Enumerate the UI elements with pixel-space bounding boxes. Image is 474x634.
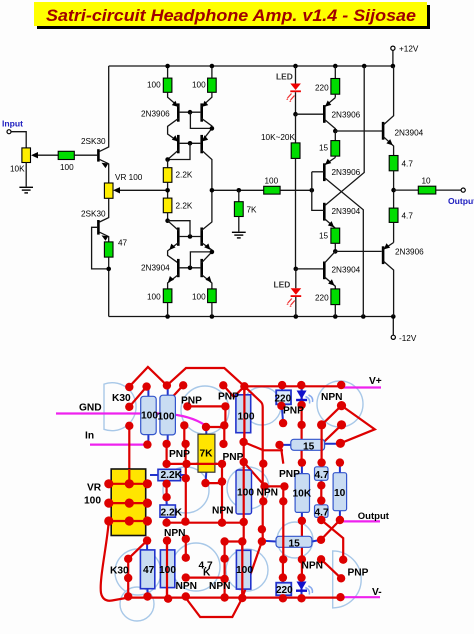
svg-text:100: 100: [141, 411, 158, 422]
PCB labels: [79, 376, 390, 598]
trace segment 49: [166, 541, 168, 599]
svg-text:100: 100: [236, 565, 253, 576]
wire between 2.2Ks: [167, 160, 169, 199]
svg-text:220: 220: [315, 294, 329, 303]
trace segment 4: [128, 426, 130, 484]
svg-text:NPN: NPN: [257, 488, 279, 499]
pad 87: [337, 574, 345, 582]
resistor 7K: [234, 190, 257, 231]
pad 8: [297, 381, 305, 389]
pad 32: [182, 474, 190, 482]
pad 72: [220, 537, 228, 545]
svg-text:10K: 10K: [293, 489, 312, 500]
trace segment 3: [129, 387, 146, 407]
trace segment 5: [187, 405, 225, 407]
pad 90: [238, 594, 246, 602]
transistor Qd 2N3904: [324, 251, 360, 289]
pad 57: [125, 516, 134, 525]
body 2.2K b: [160, 497, 175, 523]
svg-text:2.2K: 2.2K: [161, 508, 183, 519]
svg-text:10: 10: [422, 177, 432, 186]
wire left column top: [108, 66, 110, 147]
diode D2 (PCB): [296, 578, 312, 599]
trace segment 8: [172, 385, 184, 398]
body 15 bottom: [263, 536, 321, 547]
pad 67: [317, 536, 325, 544]
pad 15: [337, 401, 346, 410]
resistor 10K~20K: [261, 114, 300, 269]
pad 7: [278, 381, 286, 389]
transistor Q2 2SK30: [81, 210, 109, 269]
node +12V terminal: [391, 46, 395, 50]
pad 42: [280, 482, 288, 490]
body 220 bottom: [276, 578, 291, 599]
svg-text:NPN: NPN: [321, 392, 343, 403]
wire 2.2K to lower quad: [167, 213, 169, 221]
trace segment 52: [109, 484, 148, 521]
pad 22: [337, 420, 346, 429]
body 4.7 a: [315, 463, 329, 486]
body 2.2K a: [150, 469, 186, 480]
transistor Qout1 2N3904: [383, 66, 424, 156]
trace segment 43: [185, 539, 187, 558]
pad 69: [163, 536, 171, 544]
svg-text:100: 100: [192, 81, 206, 90]
pad 84: [279, 555, 287, 563]
pad 47: [298, 458, 306, 466]
trace segment 2: [167, 368, 342, 386]
pad 13: [277, 402, 285, 410]
pad 24: [162, 440, 170, 448]
pad 39: [259, 460, 267, 468]
resistor 100 (middle): [264, 177, 280, 195]
wire 100 to JFET1 gate: [74, 154, 97, 156]
node LED2 junction: [294, 267, 299, 272]
pad 66: [258, 525, 266, 533]
svg-text:PNP: PNP: [283, 406, 304, 417]
wire pot to ground: [25, 163, 27, 187]
wire VR to Q2 drain: [108, 198, 110, 216]
resistor 220 upper: [315, 66, 340, 98]
pad 63: [336, 516, 344, 524]
svg-text:NPN: NPN: [164, 528, 186, 539]
transistor outline NPN mid right: [277, 522, 313, 558]
trace segment 1: [129, 367, 167, 387]
pad 80: [220, 555, 228, 563]
magenta wire V-: [341, 596, 381, 598]
trace segment 19: [166, 484, 168, 497]
pad 53: [104, 499, 113, 508]
trace segment 50: [301, 559, 303, 577]
resistor 100 (input): [58, 151, 74, 172]
trace segment 42: [127, 559, 129, 597]
svg-text:GND: GND: [79, 403, 102, 414]
pad 94: [297, 594, 305, 602]
body 47: [140, 541, 154, 597]
trace segment 29: [265, 485, 284, 487]
pad 86: [317, 555, 325, 563]
wire red overlays on components: [109, 439, 322, 549]
wire LED1 node to Qa base: [296, 113, 324, 115]
pad 73: [258, 537, 266, 545]
trace segment 22: [340, 406, 374, 444]
svg-text:V-: V-: [372, 587, 382, 598]
wire base link bottom pair: [180, 142, 201, 144]
pad 29: [162, 480, 170, 488]
pad 55: [143, 499, 152, 508]
pad 52: [143, 479, 152, 488]
trace segment 44: [186, 576, 225, 578]
pad 78: [182, 573, 190, 581]
wire tie right node to top bases: [190, 112, 212, 128]
trace segment 21: [322, 406, 342, 425]
trace segment 7: [206, 426, 224, 428]
pad 12: [221, 402, 229, 410]
wire base link T5 T6: [180, 236, 201, 238]
svg-text:4.7: 4.7: [315, 508, 329, 519]
svg-text:4.7: 4.7: [402, 212, 414, 221]
svg-text:K30: K30: [112, 393, 131, 404]
pad 54: [125, 499, 134, 508]
svg-text:2N3906: 2N3906: [395, 248, 424, 257]
resistor 2.2K upper: [163, 168, 193, 183]
pad 35: [218, 477, 226, 485]
trace segment 25: [301, 385, 303, 463]
trace segment 13: [223, 425, 225, 444]
trace segment 32: [243, 386, 245, 442]
wire 100s to bottom rail: [168, 303, 212, 317]
svg-text:VR 100: VR 100: [115, 173, 143, 182]
svg-text:100: 100: [84, 496, 101, 507]
svg-text:7K: 7K: [247, 206, 258, 215]
pad 16: [125, 422, 133, 430]
trace segment 16: [221, 464, 223, 523]
pad 77: [182, 554, 190, 562]
pad 20: [297, 421, 305, 429]
trace segment 27: [244, 386, 262, 541]
pad 48: [317, 458, 325, 466]
wire Q1 source to VR: [108, 164, 110, 184]
trace segment 30: [282, 486, 284, 559]
wire -12V drop: [392, 317, 394, 336]
pad 62: [317, 516, 325, 524]
svg-text:100: 100: [238, 412, 255, 423]
svg-text:10K: 10K: [10, 165, 25, 174]
pad 49: [336, 458, 344, 466]
svg-text:220: 220: [276, 585, 293, 596]
body 100 v8: [160, 541, 174, 599]
svg-text:PNP: PNP: [279, 469, 300, 480]
transistor T6 2N3904: [201, 190, 212, 252]
transistor outline NPN bottom left: [172, 543, 220, 591]
svg-text:15: 15: [319, 144, 329, 153]
resistor 100 (top left): [147, 78, 172, 92]
svg-text:100: 100: [60, 163, 74, 172]
resistor 100 (top right): [192, 78, 216, 92]
trace segment 14: [167, 463, 222, 465]
svg-text:2N3904: 2N3904: [332, 207, 361, 216]
pad 11: [183, 402, 191, 410]
pad 6: [240, 382, 248, 390]
pad 34: [218, 460, 226, 468]
PCB pads: [104, 381, 347, 603]
pad 4: [179, 381, 187, 389]
resistor 4.7 upper: [389, 156, 413, 209]
PCB resistor bodies: [140, 385, 346, 599]
pad 60: [317, 496, 325, 504]
pad 71: [182, 535, 190, 543]
pad 56: [104, 516, 113, 525]
pad 85: [339, 556, 347, 564]
transistor T1 2N3906: [168, 92, 179, 142]
pad 43: [279, 497, 287, 505]
wire top rail: [109, 65, 394, 67]
svg-text:100: 100: [147, 293, 161, 302]
pad 83: [298, 555, 306, 563]
trace segment 51: [282, 559, 284, 598]
wire 47 to bottom rail: [108, 257, 110, 316]
wire +12V drop: [392, 51, 394, 67]
pad 26: [219, 440, 227, 448]
svg-text:10: 10: [334, 488, 346, 499]
trace segment 48: [242, 542, 262, 599]
svg-text:2N3904: 2N3904: [332, 266, 361, 275]
magenta wire GND: [56, 414, 205, 426]
svg-text:2.2K: 2.2K: [161, 470, 183, 481]
svg-text:4.7: 4.7: [402, 160, 414, 169]
pad 93: [279, 594, 287, 602]
node Qd collector: [333, 249, 338, 254]
transistor outline bottom corner: [120, 587, 154, 621]
svg-text:VR: VR: [87, 483, 102, 494]
node -12V terminal: [391, 335, 395, 339]
magenta wire Output: [342, 520, 380, 522]
pad 33: [181, 517, 189, 525]
LED upper: [276, 66, 301, 114]
transistor outline PNP top mid: [243, 387, 281, 425]
pad 2: [142, 382, 150, 390]
svg-text:NPN: NPN: [209, 581, 231, 592]
pad 76: [124, 592, 132, 600]
trace segment 35: [321, 520, 343, 560]
pad 23: [143, 440, 151, 448]
svg-text:Output: Output: [358, 511, 390, 522]
node input terminal: [7, 130, 11, 134]
svg-text:47: 47: [118, 239, 128, 248]
resistor 4.7 lower: [389, 208, 413, 242]
trace segment 41: [128, 541, 147, 559]
svg-text:NPN: NPN: [176, 581, 198, 592]
svg-text:K30: K30: [110, 566, 129, 577]
resistor 220 lower: [315, 289, 340, 317]
PCB traces: [101, 367, 375, 617]
trace segment 23: [322, 425, 341, 443]
title bar: [34, 2, 427, 26]
trace segment 26: [320, 485, 322, 500]
potentiometer 10K: [10, 148, 58, 174]
transistor Qa 2N3906: [324, 98, 360, 131]
transistor outline PNP bottom right: [333, 551, 362, 608]
diode D1 (PCB): [296, 387, 313, 404]
transistor outline PNP mid left: [163, 467, 209, 513]
svg-text:4.7: 4.7: [315, 470, 329, 481]
svg-text:LED: LED: [276, 72, 293, 82]
svg-text:2.2K: 2.2K: [176, 202, 193, 211]
pad 10: [125, 403, 133, 411]
wire 100 middle to driver node: [280, 189, 312, 191]
transistor outline K30 top: [104, 383, 136, 431]
transistor T8 2N3904: [201, 252, 212, 289]
svg-text:2SK30: 2SK30: [81, 210, 106, 219]
magenta wire In: [90, 444, 147, 446]
wire output junction to 10: [394, 189, 419, 191]
pad 95: [336, 593, 344, 601]
resistor 100 (bottom left): [147, 289, 172, 303]
svg-text:15: 15: [319, 232, 329, 241]
svg-text:7K: 7K: [200, 449, 214, 460]
body 4.7 b: [315, 501, 329, 520]
svg-text:100: 100: [237, 488, 254, 499]
pad 89: [164, 595, 172, 603]
trace segment 28: [244, 462, 265, 486]
body 100 v3: [236, 386, 251, 442]
svg-text:NPN: NPN: [212, 506, 234, 517]
pad 38: [279, 419, 287, 427]
title shadow: [37, 5, 430, 29]
svg-text:220: 220: [315, 84, 329, 93]
svg-text:220: 220: [275, 394, 292, 405]
trace segment 12: [185, 444, 187, 464]
transistor outline PNP pair top: [181, 386, 229, 434]
svg-text:2.2K: 2.2K: [176, 171, 193, 180]
svg-text:V+: V+: [369, 376, 382, 387]
wire Qd collector to output base: [335, 250, 381, 252]
pad 82: [220, 593, 228, 601]
svg-text:PNP: PNP: [218, 392, 239, 403]
wire bottom rail: [109, 316, 394, 318]
pad 37: [239, 438, 247, 446]
PCB transistor outlines: [104, 381, 363, 621]
svg-text:2N3904: 2N3904: [395, 129, 424, 138]
pad 50: [104, 479, 113, 488]
trace segment 46: [225, 540, 243, 542]
pad 64: [201, 479, 209, 487]
wire input to pot: [11, 132, 26, 148]
pad 92: [297, 573, 305, 581]
node Qa collector: [333, 129, 338, 134]
svg-text:NPN: NPN: [302, 561, 324, 572]
component 7K yellow: [198, 429, 215, 483]
pad 74: [124, 555, 132, 563]
trace segment 17: [206, 482, 223, 484]
node output junction: [391, 188, 396, 193]
node output terminal: [461, 188, 465, 192]
wire tie left node to bottom bases: [168, 143, 190, 159]
trace segment 39: [128, 596, 340, 598]
svg-text:100: 100: [159, 565, 176, 576]
trace segment 10: [183, 425, 185, 444]
pad 65: [240, 518, 248, 526]
svg-text:PNP: PNP: [348, 568, 369, 579]
pad 30: [162, 493, 170, 501]
node LED1 junction: [293, 112, 298, 117]
wire base link top pair: [180, 111, 201, 113]
trace segment 11: [166, 444, 168, 464]
body 100 v9: [236, 542, 250, 598]
svg-text:Input: Input: [2, 119, 23, 129]
node feedback junction: [106, 267, 111, 272]
body 100 v2: [160, 387, 176, 445]
wire 100s to top rail: [168, 66, 212, 78]
trace segment 33: [243, 522, 245, 541]
trace segment 20: [244, 442, 283, 450]
transistor outline K30 bottom: [115, 549, 161, 595]
svg-text:100: 100: [158, 412, 175, 423]
svg-text:PNP: PNP: [169, 449, 190, 460]
pad 21: [317, 420, 326, 429]
svg-text:2SK30: 2SK30: [81, 137, 106, 146]
trace segment 6: [224, 406, 226, 425]
pad 36: [218, 519, 226, 527]
ground (input): [19, 187, 33, 193]
node rail dots bottom: [165, 314, 395, 319]
pad 79: [182, 592, 190, 600]
pad 88: [143, 592, 151, 600]
trace segment 15: [185, 464, 187, 522]
transistor T4 2N3906: [201, 135, 212, 190]
svg-text:100: 100: [192, 293, 206, 302]
wire Qa collector to output base: [335, 130, 382, 132]
magenta wire V+: [341, 386, 381, 388]
pad 1: [125, 383, 133, 391]
trace segment 31: [281, 444, 284, 463]
pad 59: [317, 481, 325, 489]
pad 9: [337, 381, 345, 389]
pad 68: [143, 536, 151, 544]
wire base link T7 T8: [180, 267, 201, 269]
resistor 47: [104, 239, 127, 258]
trace segment 18: [167, 522, 244, 524]
trace segment 47: [241, 542, 243, 598]
wire tie top node to T5 T6 bases: [168, 221, 190, 237]
transistor outline NPN mid: [227, 467, 269, 509]
trace segment 34: [301, 521, 303, 560]
LED lower: [274, 269, 302, 317]
pad 31: [162, 519, 170, 527]
transistor T5 2N3904: [168, 221, 179, 264]
body 100 v4: [236, 442, 252, 522]
svg-text:PNP: PNP: [223, 452, 244, 463]
body 10K: [295, 463, 309, 521]
pad 58: [143, 516, 152, 525]
trace segment 40: [186, 598, 243, 617]
pad 51: [125, 479, 134, 488]
wire tie right node to T7 T8 bases: [190, 252, 212, 268]
node rail dots top: [165, 64, 395, 69]
pad 91: [279, 573, 287, 581]
body 10: [333, 463, 347, 520]
resistor 100 (bottom right): [192, 289, 216, 303]
svg-text:K: K: [203, 568, 211, 579]
trace segment 36: [321, 520, 340, 540]
transistor Qb 2N3906: [312, 158, 364, 317]
resistor 2.2K lower: [163, 198, 193, 213]
pad 3: [163, 381, 171, 389]
resistor 15 upper: [319, 131, 340, 158]
pad 81: [220, 575, 228, 583]
trace segment 45: [224, 542, 226, 598]
transistor outline NPN bottom mid: [226, 549, 268, 591]
